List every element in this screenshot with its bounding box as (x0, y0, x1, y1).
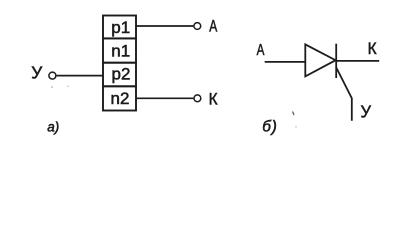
svg-text:К: К (209, 90, 218, 109)
svg-text:б): б) (262, 118, 278, 135)
svg-text:А: А (209, 16, 217, 35)
svg-text:У: У (31, 63, 43, 83)
svg-text:А: А (257, 42, 265, 59)
svg-text:n1: n1 (111, 42, 130, 61)
svg-text:У: У (361, 101, 372, 121)
svg-text:n2: n2 (111, 89, 130, 108)
svg-text:p2: p2 (112, 65, 131, 84)
svg-text:К: К (368, 40, 377, 58)
svg-text:p1: p1 (111, 18, 130, 37)
svg-text:a): a) (47, 120, 59, 135)
